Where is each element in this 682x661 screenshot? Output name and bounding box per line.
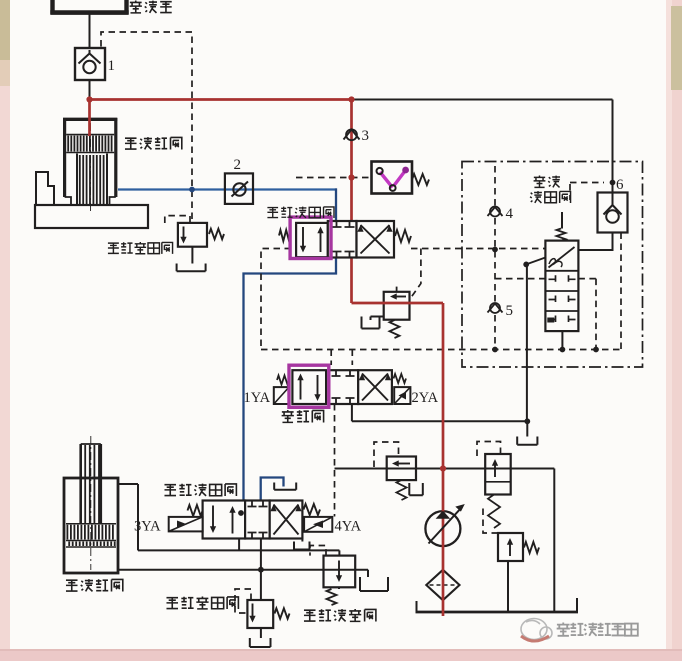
- svg-text:2YA: 2YA: [412, 390, 439, 406]
- svg-text:3YA: 3YA: [134, 519, 161, 535]
- svg-text:1: 1: [108, 58, 116, 74]
- svg-text:2: 2: [234, 157, 242, 173]
- svg-text:4YA: 4YA: [335, 519, 362, 535]
- svg-text:4: 4: [506, 206, 514, 222]
- svg-text:5: 5: [506, 303, 514, 319]
- svg-text:3: 3: [362, 128, 370, 144]
- svg-text:1YA: 1YA: [244, 390, 271, 406]
- svg-text:6: 6: [616, 177, 624, 193]
